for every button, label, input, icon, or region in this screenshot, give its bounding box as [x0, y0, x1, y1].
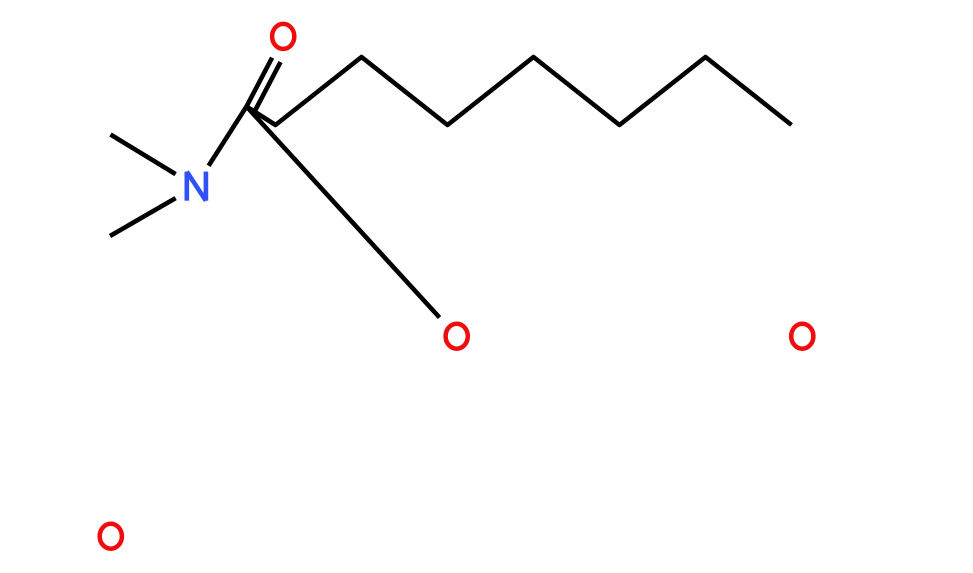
oxygen O2 label (middle ether, red) [446, 324, 468, 349]
oxygen O4 label (bottom left, red) [100, 524, 122, 549]
bond N-C1 (amide) [209, 107, 247, 166]
bond from N down-left [110, 198, 176, 236]
oxygen O3 label (right, red) [791, 324, 813, 349]
oxygen O1 label (top, red) [272, 24, 294, 49]
carbonyl C=O double bond (amide C1 to O top) [247, 58, 281, 111]
long straight bond C1 to ether O2 [247, 107, 440, 318]
bond from N up-left [111, 135, 176, 175]
nitrogen N label (blue) [187, 172, 206, 201]
zigzag chain from C1 to the right [247, 57, 792, 125]
